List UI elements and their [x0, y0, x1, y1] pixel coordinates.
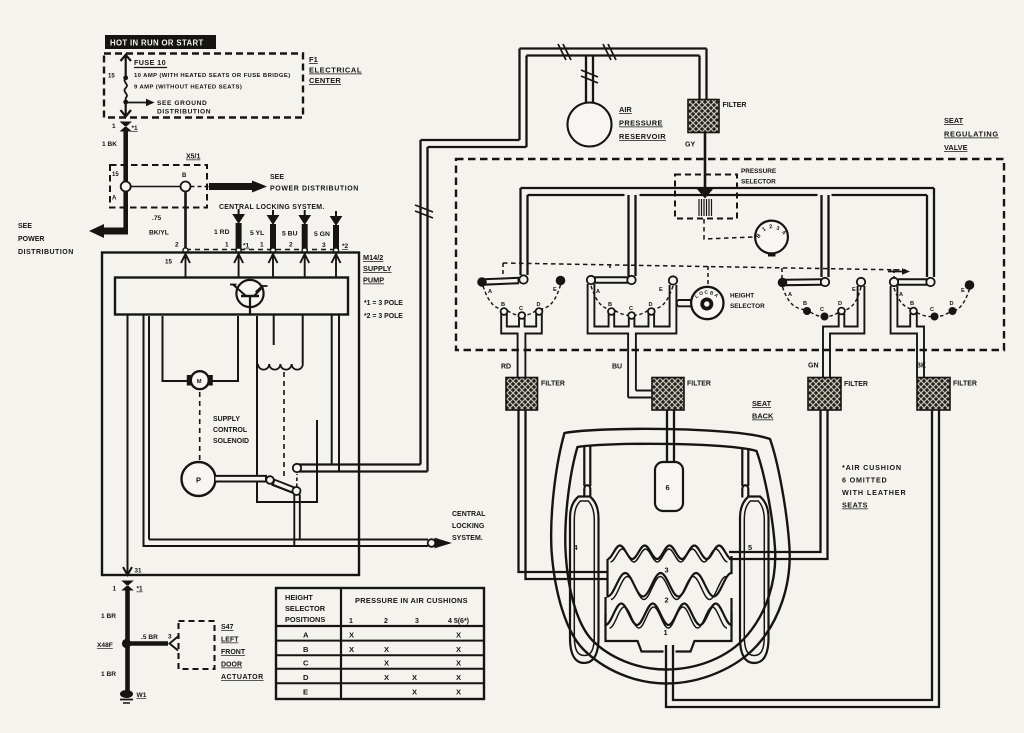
GN hose to seat right — [729, 410, 828, 559]
svg-text:SEAT: SEAT — [752, 399, 772, 408]
svg-text:M14/2: M14/2 — [363, 253, 383, 262]
svg-text:1 RD: 1 RD — [214, 229, 230, 236]
pipe filter to pressure selector — [704, 133, 707, 191]
svg-text:1: 1 — [113, 586, 117, 593]
svg-text:*2: *2 — [342, 243, 349, 250]
wire from A down — [123, 192, 128, 232]
hose couplings — [415, 44, 616, 218]
svg-text:GY: GY — [685, 142, 695, 149]
wire 1 BK — [123, 129, 128, 182]
hose drop selector 3 — [822, 195, 829, 277]
hose drop selector 2 — [629, 195, 636, 276]
svg-text:X: X — [384, 673, 389, 682]
svg-text:BK/YL: BK/YL — [149, 230, 169, 237]
air cushion 2 wavy — [608, 556, 732, 600]
inner pump unit box — [148, 316, 150, 540]
S47 door actuator dashed box — [179, 621, 215, 669]
air cushion 6 — [655, 462, 683, 511]
svg-text:2: 2 — [665, 596, 669, 605]
BU hose to cushion 6 — [667, 410, 674, 462]
svg-text:FUSE 10: FUSE 10 — [134, 58, 166, 67]
svg-text:*2 = 3 POLE: *2 = 3 POLE — [364, 313, 403, 320]
F1 electrical center dashed box — [104, 54, 303, 118]
svg-text:SELECTOR: SELECTOR — [741, 179, 776, 186]
wire into fuse with up arrow — [125, 56, 127, 78]
svg-text:4: 4 — [574, 543, 579, 552]
svg-text:2: 2 — [175, 242, 179, 249]
svg-text:2: 2 — [289, 242, 293, 249]
contacts B C D — [501, 308, 508, 315]
svg-text:X: X — [384, 659, 389, 668]
svg-text:B: B — [501, 302, 505, 308]
contact A — [477, 277, 487, 287]
svg-text:A: A — [596, 289, 600, 295]
svg-text:CONTROL: CONTROL — [213, 427, 247, 434]
pilot dashed line across selectors — [503, 263, 906, 270]
svg-text:SEE GROUND: SEE GROUND — [157, 100, 207, 107]
svg-text:D: D — [649, 302, 653, 308]
contact E — [556, 276, 566, 286]
node X48F — [122, 639, 131, 648]
svg-text:SEAT: SEAT — [944, 116, 964, 125]
see power distribution (left) arrow — [103, 228, 128, 235]
svg-text:BACK: BACK — [752, 412, 774, 421]
svg-text:SUPPLY: SUPPLY — [363, 264, 392, 273]
manifold comb — [501, 314, 542, 378]
hose top run — [520, 49, 707, 56]
svg-text:2: 2 — [384, 618, 388, 625]
svg-text:B: B — [182, 173, 187, 179]
wire: bar down and right to central locking — [144, 315, 429, 547]
svg-text:C: C — [820, 307, 824, 313]
svg-text:E: E — [659, 287, 663, 293]
svg-text:X: X — [349, 645, 354, 654]
svg-text:A: A — [488, 289, 492, 295]
BK hose to seat bottom — [666, 410, 939, 707]
svg-text:C: C — [629, 306, 633, 312]
hose drop selector 1 — [521, 188, 528, 275]
svg-text:*1: *1 — [132, 125, 139, 132]
svg-text:DISTRIBUTION: DISTRIBUTION — [157, 109, 211, 116]
svg-text:ELECTRICAL: ELECTRICAL — [309, 66, 362, 75]
svg-text:DOOR: DOOR — [221, 662, 242, 669]
svg-text:SELECTOR: SELECTOR — [285, 604, 326, 613]
svg-text:*AIR CUSHION: *AIR CUSHION — [842, 463, 902, 472]
transistor Q circle — [236, 280, 263, 307]
svg-text:F1: F1 — [309, 55, 318, 64]
svg-text:5 YL: 5 YL — [250, 230, 264, 237]
svg-text:3: 3 — [665, 566, 669, 575]
hose second riser — [520, 49, 527, 148]
svg-text:1: 1 — [664, 628, 668, 637]
svg-text:HEIGHT: HEIGHT — [285, 593, 313, 602]
svg-text:X: X — [384, 645, 389, 654]
height selector knob — [691, 287, 723, 319]
svg-text:HEIGHT: HEIGHT — [730, 293, 754, 300]
svg-text:1: 1 — [112, 123, 116, 130]
svg-text:DISTRIBUTION: DISTRIBUTION — [18, 249, 74, 256]
svg-text:FILTER: FILTER — [953, 381, 977, 388]
wire: bar to bottom exit — [127, 315, 129, 575]
pin circles at pump entries — [183, 248, 188, 253]
svg-text:1: 1 — [260, 242, 264, 249]
svg-text:1: 1 — [225, 242, 229, 249]
svg-text:9 AMP (WITHOUT HEATED SEATS): 9 AMP (WITHOUT HEATED SEATS) — [134, 85, 242, 91]
entry arrows into pump — [181, 254, 341, 277]
svg-text:D: D — [950, 301, 954, 307]
svg-text:3: 3 — [322, 242, 326, 249]
solenoid valve chamber — [257, 316, 317, 502]
contact A with stem — [587, 276, 595, 284]
svg-text:15: 15 — [165, 259, 173, 266]
air cushion 3 wavy — [608, 546, 732, 563]
svg-text:CENTRAL: CENTRAL — [452, 511, 486, 518]
see ground distribution arrow — [126, 102, 147, 104]
pressure selector coil — [699, 199, 712, 216]
svg-text:A: A — [788, 292, 792, 298]
svg-text:X: X — [412, 688, 417, 697]
pressure selector knob B1234 — [755, 221, 788, 254]
svg-text:E: E — [961, 288, 965, 294]
svg-text:1 BR: 1 BR — [101, 613, 116, 620]
svg-text:C: C — [303, 659, 309, 668]
motor loop wires — [163, 316, 189, 381]
svg-text:6: 6 — [666, 483, 670, 492]
svg-text:X5/1: X5/1 — [186, 154, 201, 161]
svg-text:X: X — [456, 659, 461, 668]
hose pump to riser — [300, 465, 428, 472]
hot in run or start box — [105, 35, 216, 49]
svg-text:CENTER: CENTER — [309, 76, 341, 85]
svg-text:AIR: AIR — [619, 105, 632, 114]
svg-text:VALVE: VALVE — [944, 143, 968, 152]
svg-text:P: P — [196, 476, 201, 485]
switch drop to CLS wire — [294, 495, 300, 547]
svg-text:SUPPLY: SUPPLY — [213, 416, 240, 423]
hose down to filter — [700, 49, 707, 101]
svg-text:.5 BR: .5 BR — [141, 634, 158, 641]
svg-text:A: A — [303, 631, 309, 640]
svg-text:CENTRAL LOCKING SYSTEM.: CENTRAL LOCKING SYSTEM. — [219, 204, 325, 211]
svg-text:15: 15 — [108, 74, 115, 80]
svg-text:5: 5 — [748, 543, 752, 552]
svg-text:REGULATING: REGULATING — [944, 130, 999, 139]
svg-text:3: 3 — [415, 618, 419, 625]
wires bar to hose terminals — [331, 315, 333, 466]
svg-text:BU: BU — [612, 364, 622, 371]
dashed position arc — [483, 285, 561, 316]
dashed pin link line — [186, 249, 336, 251]
svg-text:S47: S47 — [221, 624, 234, 631]
svg-text:1 BR: 1 BR — [101, 671, 116, 678]
wire 1 BR — [125, 589, 130, 694]
svg-text:*1: *1 — [137, 586, 144, 593]
pressure selector dashed box — [675, 175, 737, 219]
svg-text:31: 31 — [135, 568, 143, 575]
svg-text:B: B — [608, 302, 612, 308]
svg-text:E: E — [553, 287, 557, 293]
svg-text:PRESSURE IN AIR CUSHIONS: PRESSURE IN AIR CUSHIONS — [355, 596, 468, 605]
svg-text:FILTER: FILTER — [723, 102, 747, 109]
svg-text:SOLENOID: SOLENOID — [213, 438, 249, 445]
svg-text:4 5(6*): 4 5(6*) — [448, 618, 469, 625]
svg-text:RESERVOIR: RESERVOIR — [619, 132, 666, 141]
svg-text:LOCKING: LOCKING — [452, 523, 485, 530]
solenoid coil — [302, 315, 304, 365]
svg-text:SEE: SEE — [18, 223, 32, 230]
svg-text:PRESSURE: PRESSURE — [741, 168, 777, 175]
wire between terminals — [131, 186, 181, 188]
svg-text:PRESSURE: PRESSURE — [619, 119, 663, 128]
air cushion 1 wavy slab — [606, 597, 732, 652]
fuse F10 symbol — [124, 78, 126, 102]
svg-text:B: B — [303, 645, 309, 654]
seat outer outline — [551, 429, 790, 684]
wire .5 BR to door actuator — [128, 641, 168, 646]
svg-text:1 BK: 1 BK — [102, 141, 117, 148]
svg-text:B: B — [803, 301, 807, 307]
svg-text:1: 1 — [349, 618, 353, 625]
filter (supply) — [688, 100, 719, 133]
svg-text:GN: GN — [808, 363, 819, 370]
svg-text:BK: BK — [916, 363, 926, 370]
svg-text:SYSTEM.: SYSTEM. — [452, 535, 483, 542]
motor M — [187, 375, 191, 386]
svg-text:LEFT: LEFT — [221, 637, 239, 644]
air cushion 5 — [740, 485, 769, 663]
connector X5/1 dashed box — [110, 165, 207, 208]
svg-text:HOT IN RUN OR START: HOT IN RUN OR START — [110, 39, 204, 48]
svg-text:POWER: POWER — [18, 236, 44, 243]
svg-text:*1 = 3 POLE: *1 = 3 POLE — [364, 300, 403, 307]
svg-text:5 GN: 5 GN — [314, 231, 330, 238]
frame channel to bolsters — [584, 446, 748, 486]
svg-text:.75: .75 — [152, 215, 161, 222]
svg-text:W1: W1 — [137, 692, 147, 699]
svg-text:A: A — [112, 196, 117, 202]
node dot — [123, 75, 128, 80]
svg-text:POWER DISTRIBUTION: POWER DISTRIBUTION — [270, 186, 359, 193]
pump P — [182, 462, 216, 496]
svg-text:RD: RD — [501, 364, 511, 371]
svg-text:X: X — [456, 645, 461, 654]
svg-text:X: X — [456, 688, 461, 697]
svg-text:C: C — [930, 307, 934, 313]
wire .75 BK/YL from B down — [184, 192, 187, 249]
svg-text:ACTUATOR: ACTUATOR — [221, 674, 264, 681]
node dot — [123, 100, 128, 105]
wire with down arrow to box bottom — [125, 102, 127, 115]
svg-text:FILTER: FILTER — [844, 381, 868, 388]
svg-text:E: E — [852, 287, 856, 293]
svg-text:M: M — [197, 379, 202, 385]
ground W1 — [120, 690, 133, 698]
pump exit arrow 31 — [123, 567, 132, 575]
svg-text:15: 15 — [112, 172, 119, 178]
air pressure reservoir — [568, 103, 612, 147]
relay bar — [115, 278, 348, 315]
seat inner outline — [565, 444, 775, 670]
hose riser — [421, 140, 428, 472]
lever from pump — [214, 475, 267, 483]
svg-text:X: X — [456, 673, 461, 682]
dashed pilot to knob B — [704, 219, 753, 239]
svg-text:X: X — [412, 673, 417, 682]
svg-text:E: E — [303, 688, 308, 697]
svg-text:D: D — [537, 302, 541, 308]
dashed link motor to pump — [199, 392, 201, 460]
see power distribution (right) arrow — [191, 186, 210, 188]
direction arrow — [888, 271, 903, 273]
wiper arm — [484, 281, 519, 283]
svg-text:FILTER: FILTER — [541, 381, 565, 388]
svg-text:X48F: X48F — [97, 642, 113, 649]
svg-text:3: 3 — [168, 634, 172, 641]
svg-text:X: X — [456, 631, 461, 640]
svg-text:SEATS: SEATS — [842, 501, 868, 510]
svg-text:10 AMP (WITH HEATED SEATS OR F: 10 AMP (WITH HEATED SEATS OR FUSE BRIDGE… — [134, 73, 291, 79]
svg-text:*1: *1 — [243, 243, 250, 250]
svg-text:POSITIONS: POSITIONS — [285, 615, 325, 624]
svg-text:SEE: SEE — [270, 174, 284, 181]
RD hose to seat left — [519, 410, 608, 579]
svg-text:A: A — [899, 292, 903, 298]
svg-text:WITH LEATHER: WITH LEATHER — [842, 488, 907, 497]
air cushion 4 — [570, 485, 599, 663]
svg-text:5 BU: 5 BU — [282, 231, 298, 238]
dashed link coil to valve lever — [283, 372, 285, 478]
common port circle — [519, 275, 527, 283]
svg-text:FRONT: FRONT — [221, 649, 246, 656]
svg-text:B: B — [910, 301, 914, 307]
manifold hose — [521, 188, 935, 277]
svg-text:D: D — [838, 301, 842, 307]
hose reservoir neck — [586, 56, 593, 104]
svg-text:6 OMITTED: 6 OMITTED — [842, 476, 888, 485]
svg-text:PUMP: PUMP — [363, 276, 384, 285]
svg-text:D: D — [303, 673, 309, 682]
pump box outline — [102, 253, 359, 576]
hose drop selector 4 — [927, 188, 934, 277]
terminal A circle — [121, 182, 131, 192]
svg-text:SELECTOR: SELECTOR — [730, 303, 765, 310]
svg-text:X: X — [349, 631, 354, 640]
svg-text:C: C — [519, 306, 523, 312]
terminal B circle — [181, 182, 191, 192]
svg-text:FILTER: FILTER — [687, 381, 711, 388]
hose run to second riser — [421, 140, 527, 147]
pressure selector valve triangle — [697, 189, 714, 199]
